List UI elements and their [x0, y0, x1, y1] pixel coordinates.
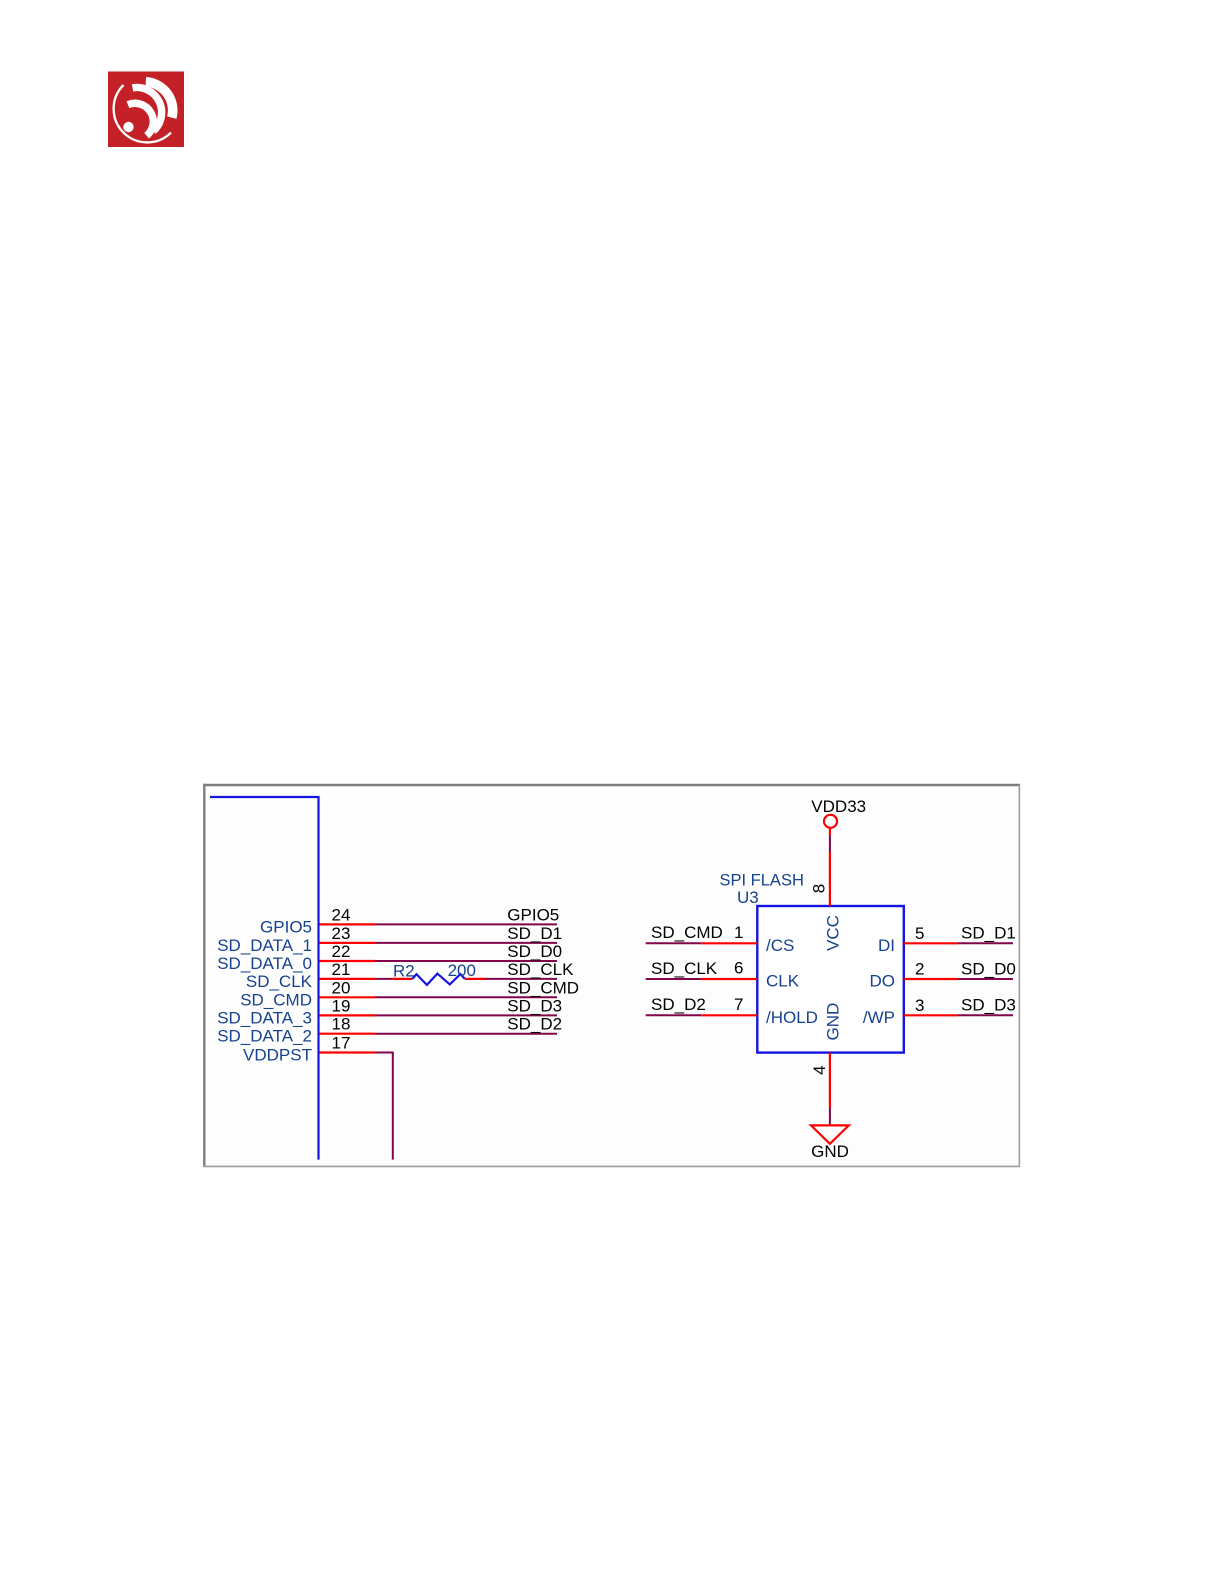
svg-text:VDDPST: VDDPST [243, 1046, 312, 1065]
svg-text:SD_CMD: SD_CMD [651, 923, 723, 942]
svg-text:R2: R2 [393, 961, 415, 980]
svg-text:SD_CLK: SD_CLK [651, 959, 718, 978]
svg-text:/CS: /CS [766, 936, 794, 955]
svg-text:DI: DI [878, 936, 895, 955]
svg-text:VCC: VCC [824, 915, 843, 951]
wire VDD33 to pin 8 [829, 835, 831, 852]
svg-text:SPI FLASH: SPI FLASH [720, 872, 804, 890]
svg-text:SD_DATA_3: SD_DATA_3 [217, 1008, 312, 1027]
svg-text:21: 21 [332, 960, 351, 979]
wire net SD_CLK [485, 960, 574, 979]
pin 1 /CS [701, 923, 794, 955]
pin 6 CLK [701, 959, 800, 991]
power port VDD33 [811, 797, 866, 835]
svg-text:SD_DATA_2: SD_DATA_2 [217, 1027, 312, 1046]
svg-text:GND: GND [824, 1003, 843, 1041]
pin 8 VCC (top) [810, 852, 843, 951]
pin 2 DO [870, 960, 959, 991]
svg-text:6: 6 [734, 959, 743, 978]
ground symbol GND [811, 1125, 849, 1161]
wire net GPIO5 [375, 905, 559, 924]
svg-text:GPIO5: GPIO5 [260, 917, 312, 936]
svg-text:5: 5 [915, 924, 924, 943]
svg-text:/WP: /WP [863, 1008, 895, 1027]
svg-text:SD_D2: SD_D2 [507, 1015, 562, 1034]
resistor R2 200 [392, 961, 485, 985]
svg-text:SD_CLK: SD_CLK [507, 960, 574, 979]
wire net SD_D2 (to pin 7) [646, 995, 706, 1015]
pin 20 SD_CMD [240, 978, 375, 1009]
wire net SD_CMD (to pin 1) [646, 923, 723, 943]
svg-text:22: 22 [332, 942, 351, 961]
svg-text:23: 23 [332, 924, 351, 943]
wire pin 4 to ground [829, 1108, 831, 1125]
svg-text:2: 2 [915, 960, 924, 979]
host IC outline (left, partial) [210, 797, 319, 1160]
pin 3 /WP [863, 996, 958, 1027]
svg-text:SD_D3: SD_D3 [961, 996, 1016, 1015]
wire net SD_CLK (to pin 6) [646, 959, 718, 979]
svg-text:SD_CMD: SD_CMD [240, 990, 312, 1009]
pin 22 SD_DATA_0 [217, 942, 375, 973]
IC U3 SPI FLASH [720, 872, 904, 1053]
wire net SD_D1 [375, 924, 562, 943]
svg-text:17: 17 [332, 1034, 351, 1053]
wire VDDPST down [375, 1053, 393, 1160]
svg-text:SD_DATA_0: SD_DATA_0 [217, 954, 312, 973]
wire to resistor R2 [375, 978, 392, 980]
svg-text:SD_CMD: SD_CMD [507, 978, 579, 997]
svg-text:SD_DATA_1: SD_DATA_1 [217, 936, 312, 955]
svg-text:SD_D2: SD_D2 [651, 995, 706, 1014]
pin 19 SD_DATA_3 [217, 996, 375, 1027]
wire net SD_D3 (from pin 3) [958, 996, 1016, 1016]
svg-text:1: 1 [734, 923, 743, 942]
wire net SD_D3 [375, 996, 562, 1015]
svg-text:VDD33: VDD33 [811, 797, 866, 816]
pin 21 SD_CLK [246, 960, 375, 991]
wire net SD_CMD [375, 978, 579, 997]
svg-text:8: 8 [810, 884, 829, 893]
wire net SD_D0 [375, 942, 562, 961]
pin 7 /HOLD [701, 995, 818, 1027]
schematic frame [203, 784, 1020, 1167]
wire net SD_D1 (from pin 5) [958, 923, 1016, 943]
pin 4 GND (bottom) [810, 1003, 843, 1108]
wire net SD_D2 [375, 1015, 562, 1034]
svg-text:/HOLD: /HOLD [766, 1008, 818, 1027]
svg-text:SD_D0: SD_D0 [961, 959, 1016, 978]
svg-text:3: 3 [915, 996, 924, 1015]
pin 5 DI [878, 924, 958, 955]
pin 23 SD_DATA_1 [217, 924, 375, 955]
svg-text:20: 20 [332, 978, 351, 997]
wire net SD_D0 (from pin 2) [958, 959, 1016, 979]
svg-text:SD_D0: SD_D0 [507, 942, 562, 961]
svg-text:19: 19 [332, 996, 351, 1015]
svg-text:18: 18 [332, 1015, 351, 1034]
svg-text:CLK: CLK [766, 972, 800, 991]
pin 17 VDDPST [243, 1034, 375, 1065]
svg-text:24: 24 [332, 905, 351, 924]
svg-text:4: 4 [810, 1065, 829, 1074]
svg-text:200: 200 [448, 961, 476, 980]
svg-text:SD_D1: SD_D1 [961, 923, 1016, 942]
svg-text:GND: GND [811, 1142, 849, 1161]
pin 18 SD_DATA_2 [217, 1015, 375, 1046]
svg-text:DO: DO [870, 972, 896, 991]
svg-text:SD_D1: SD_D1 [507, 924, 562, 943]
Espressif logo [108, 72, 184, 148]
svg-text:U3: U3 [737, 888, 759, 907]
pin 24 GPIO5 [260, 905, 375, 936]
svg-text:GPIO5: GPIO5 [507, 905, 559, 924]
svg-text:7: 7 [734, 995, 743, 1014]
svg-text:SD_CLK: SD_CLK [246, 972, 313, 991]
svg-text:SD_D3: SD_D3 [507, 996, 562, 1015]
